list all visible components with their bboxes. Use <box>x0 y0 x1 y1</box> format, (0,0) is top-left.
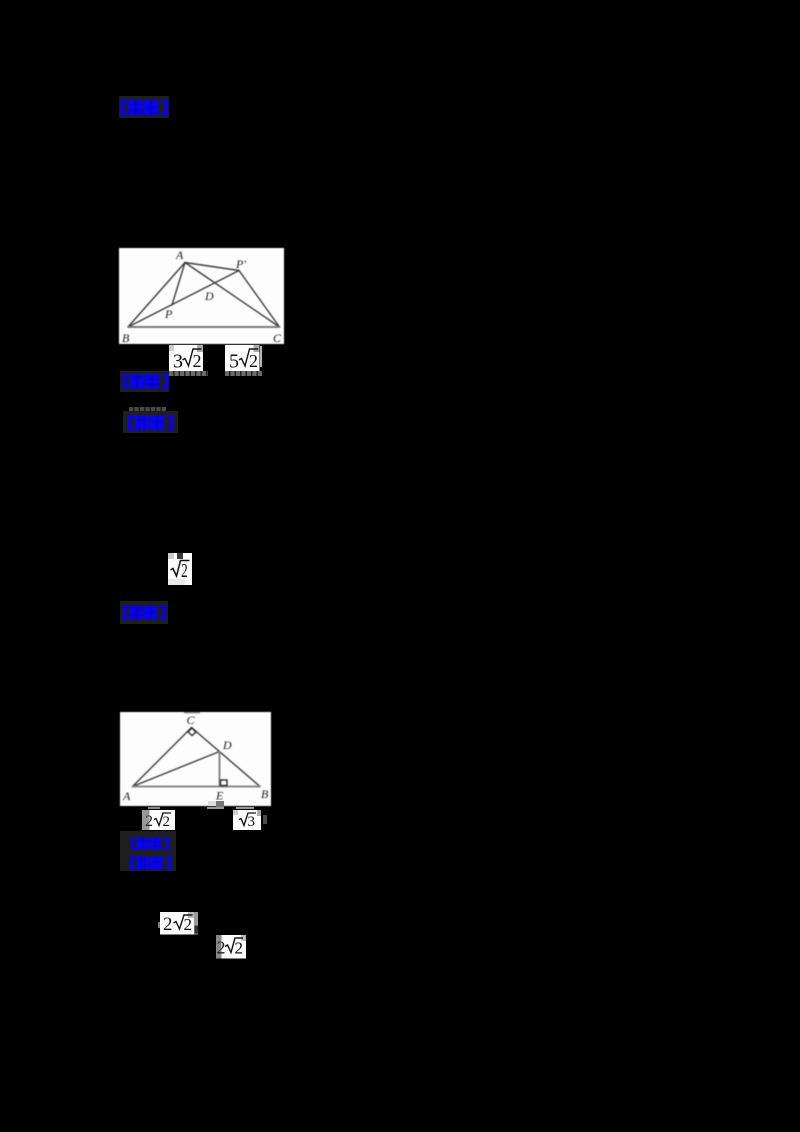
svg-text:2: 2 <box>217 938 226 958</box>
svg-text:2: 2 <box>163 814 171 830</box>
svg-text:5: 5 <box>229 350 239 371</box>
svg-text:2: 2 <box>235 939 244 958</box>
svg-text:C: C <box>187 713 196 727</box>
svg-text:2: 2 <box>183 915 192 934</box>
svg-text:A: A <box>175 248 184 262</box>
svg-text:B: B <box>122 331 130 344</box>
svg-text:2: 2 <box>181 559 188 581</box>
svg-text:D: D <box>222 738 232 752</box>
svg-text:A: A <box>122 789 131 803</box>
svg-text:C: C <box>273 331 282 344</box>
svg-text:B: B <box>261 787 269 801</box>
svg-text:2: 2 <box>192 351 201 371</box>
svg-text:D: D <box>204 289 214 303</box>
svg-text:2: 2 <box>249 351 258 371</box>
svg-text:P′: P′ <box>235 257 246 271</box>
svg-text:3: 3 <box>247 814 255 830</box>
svg-text:3: 3 <box>173 350 183 371</box>
svg-text:P: P <box>164 307 173 321</box>
svg-text:2: 2 <box>163 914 173 935</box>
svg-text:2: 2 <box>145 813 153 830</box>
